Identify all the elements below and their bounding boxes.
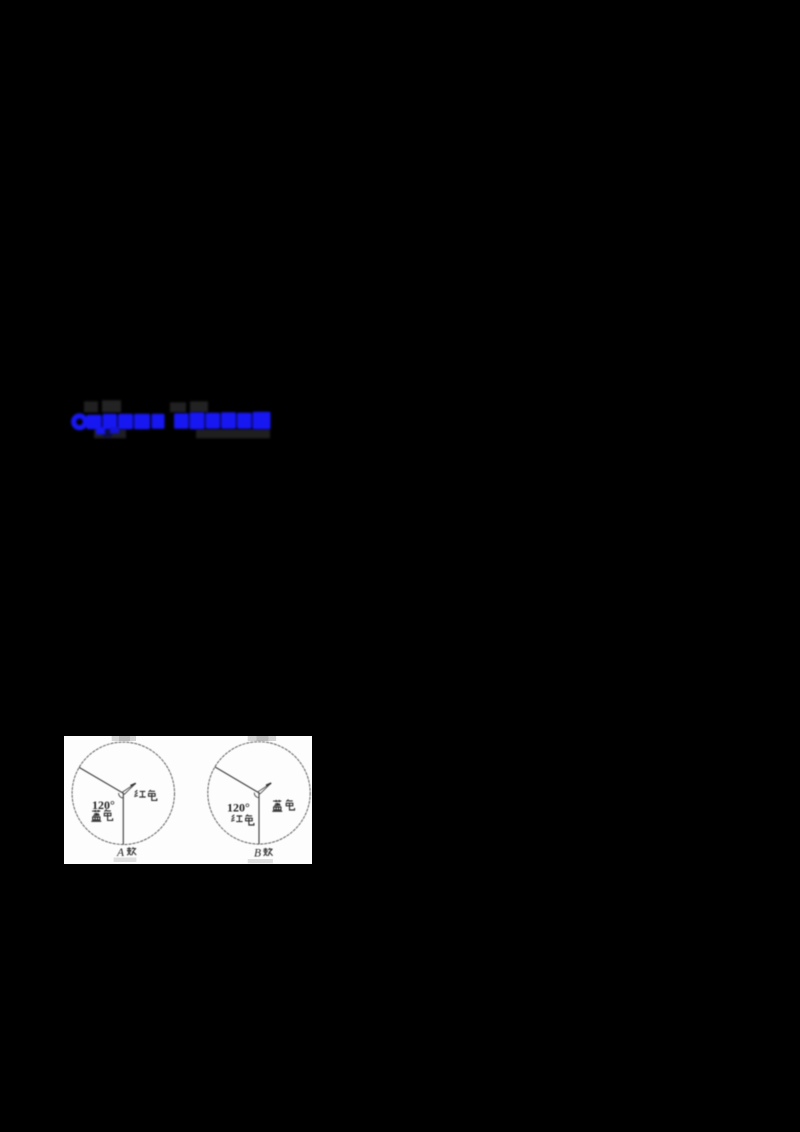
blue watermark line (58, 396, 288, 446)
svg-text:A: A (116, 847, 125, 859)
white figure panel (64, 736, 312, 864)
watermark glyph blob 2 (87, 414, 102, 429)
spinner B label hongse glyph hong (231, 814, 242, 821)
jpeg artifact block 1 (84, 401, 98, 412)
spinner A caption glyph kuan (127, 847, 136, 855)
watermark glyph blob 4 (110, 413, 133, 433)
spinner B label hongse glyph se (246, 814, 254, 824)
watermark glyph bar (134, 413, 165, 429)
spinner B label lanse glyph se (286, 799, 294, 809)
spinner B label 120deg (227, 800, 250, 814)
watermark word2 glyph 2 (190, 412, 205, 429)
watermark word2 glyph 3 (206, 412, 221, 428)
spinner A label 120deg (92, 798, 115, 812)
jpeg artifact block 7 (196, 429, 270, 438)
spinner A label hongse (red) glyph hong (134, 790, 145, 797)
spinner B caption glyph kuan (263, 847, 272, 855)
watermark word2 glyph 1 (174, 413, 189, 429)
watermark word2 glyph 5 (237, 412, 252, 428)
spinner B angle arc (254, 792, 258, 797)
watermark word2 glyph 4 (221, 412, 236, 429)
spinner A radius up-left (79, 767, 123, 793)
spinner A label lanse (blue) glyph lan (91, 809, 101, 820)
spinner B label lanse glyph lan (272, 799, 282, 810)
watermark word2 glyph 6 (253, 411, 271, 429)
scan smudge top B (248, 736, 276, 741)
scan smudge bottom B (248, 859, 273, 863)
jpeg artifact block 6 (190, 401, 208, 412)
spinner B pointer (258, 783, 271, 794)
panel background (64, 736, 312, 864)
jpeg artifact block 3 (94, 429, 126, 438)
jpeg artifact block 4 (103, 429, 112, 437)
scan smudge bottom A (114, 857, 137, 862)
spinner A caption letter A (116, 847, 125, 859)
watermark glyph ring (C) (74, 415, 86, 427)
spinner A circle (72, 742, 174, 844)
spinner B radius down (258, 792, 260, 843)
jpeg artifact block 2 (102, 400, 121, 412)
scan smudge top A (112, 736, 136, 741)
watermark glyph small (57, 392, 59, 394)
spinner A radius down (122, 793, 124, 844)
spinner B circle (208, 741, 310, 843)
svg-text:120°: 120° (227, 800, 250, 814)
svg-text:B: B (254, 847, 261, 859)
watermark glyph blob 3 (96, 413, 117, 434)
spinner B radius up-left (215, 766, 259, 792)
spinner A label hongse (red) glyph se (149, 790, 157, 800)
spinner A angle arc (119, 793, 123, 798)
spinner A label lanse (blue) glyph se (104, 809, 112, 820)
jpeg artifact block 5 (170, 402, 186, 412)
spinner B caption letter B (254, 847, 261, 859)
spinner A pointer (122, 783, 136, 794)
